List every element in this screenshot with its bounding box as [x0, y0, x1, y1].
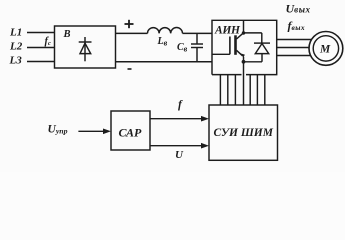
- svg-text:САР: САР: [119, 125, 143, 139]
- svg-text:Cв: Cв: [177, 42, 188, 54]
- svg-text:Lв: Lв: [157, 36, 168, 48]
- svg-text:L1: L1: [9, 27, 22, 39]
- svg-text:Uвых: Uвых: [286, 2, 311, 16]
- svg-text:СУИ ШИМ: СУИ ШИМ: [214, 127, 274, 139]
- svg-text:B: B: [63, 29, 71, 40]
- svg-text:L2: L2: [9, 41, 23, 53]
- svg-text:АИН: АИН: [214, 24, 241, 36]
- svg-text:U: U: [175, 149, 184, 161]
- svg-text:М: М: [319, 43, 331, 55]
- svg-text:L3: L3: [9, 55, 23, 67]
